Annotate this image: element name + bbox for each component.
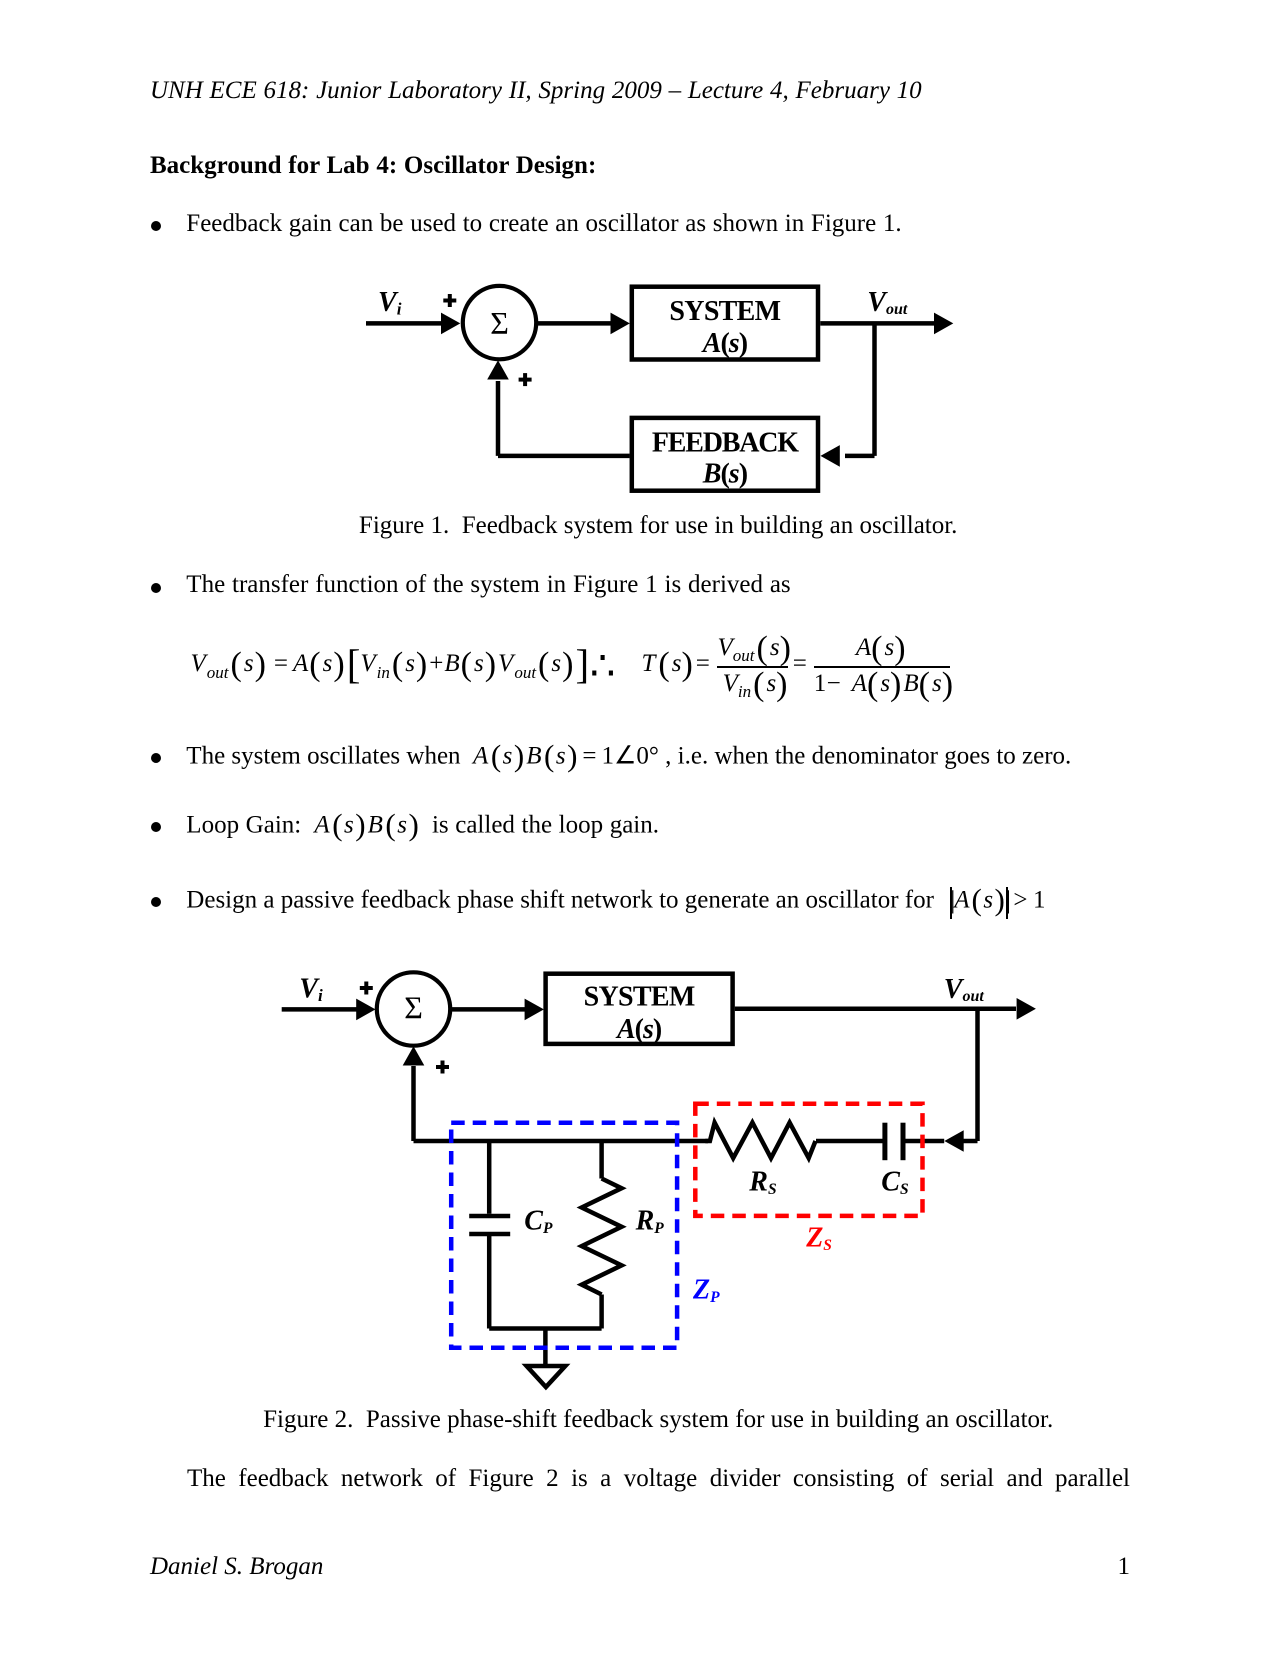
svg-text:SYSTEM: SYSTEM	[669, 296, 780, 327]
svg-text:CS: CS	[881, 1167, 908, 1199]
svg-text:A(s): A(s)	[615, 1014, 662, 1045]
svg-text:ZP: ZP	[692, 1275, 720, 1307]
svg-text:RP: RP	[635, 1205, 665, 1237]
svg-text:A(s): A(s)	[701, 328, 748, 359]
svg-text:Vout: Vout	[867, 287, 908, 318]
svg-text:Vout: Vout	[944, 974, 985, 1005]
svg-text:CP: CP	[524, 1205, 553, 1237]
svg-text:FEEDBACK: FEEDBACK	[652, 428, 799, 459]
svg-text:Vi: Vi	[378, 287, 402, 318]
svg-text:B(s): B(s)	[702, 459, 748, 490]
svg-text:Σ: Σ	[490, 305, 509, 341]
svg-text:RS: RS	[748, 1167, 776, 1199]
svg-text:ZS: ZS	[805, 1223, 832, 1255]
svg-text:SYSTEM: SYSTEM	[584, 982, 695, 1013]
svg-text:Σ: Σ	[404, 990, 423, 1026]
svg-text:Vi: Vi	[299, 974, 323, 1005]
